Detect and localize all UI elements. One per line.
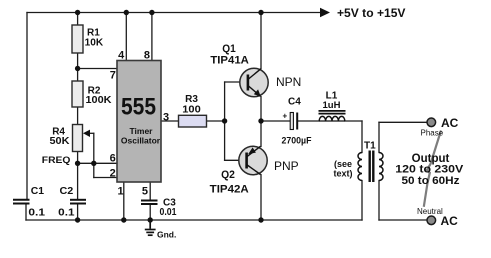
svg-text:text): text) xyxy=(333,169,352,179)
svg-text:TIP42A: TIP42A xyxy=(210,184,249,196)
wire C3 to ground rail xyxy=(149,205,151,220)
svg-text:Oscillator: Oscillator xyxy=(121,136,161,146)
svg-text:AC: AC xyxy=(441,214,459,228)
transformer T1 xyxy=(358,151,383,183)
svg-text:+: + xyxy=(283,112,288,121)
svg-text:Q2: Q2 xyxy=(221,169,235,181)
wire wiper vertical xyxy=(93,133,95,177)
terminal AC Neutral xyxy=(427,216,436,225)
svg-text:5: 5 xyxy=(142,186,148,198)
wire C1 bottom to ground rail xyxy=(25,205,27,221)
svg-text:50K: 50K xyxy=(50,136,71,147)
svg-text:TIP41A: TIP41A xyxy=(210,55,249,67)
svg-text:0.1: 0.1 xyxy=(28,207,45,218)
svg-text:50 to 60Hz: 50 to 60Hz xyxy=(402,175,461,187)
wire left vertical (V+ to C1) xyxy=(26,13,28,199)
svg-text:Timer: Timer xyxy=(130,126,154,136)
svg-text:555: 555 xyxy=(121,94,156,121)
potentiometer R4 xyxy=(73,125,83,152)
svg-text:FREQ: FREQ xyxy=(42,155,71,166)
ground symbol xyxy=(145,220,156,235)
wire secondary top to Phase terminal xyxy=(379,121,427,123)
wire R2 bottom to R4 top xyxy=(77,107,79,125)
IC 555 timer U1 xyxy=(117,61,161,183)
svg-text:Neutral: Neutral xyxy=(417,207,443,216)
svg-text:1uH: 1uH xyxy=(323,100,341,110)
wire Q1 collector to rail xyxy=(260,13,262,69)
wire Q1 base lead xyxy=(225,81,247,83)
svg-text:1: 1 xyxy=(117,186,123,198)
svg-text:100: 100 xyxy=(182,104,201,115)
svg-text:6: 6 xyxy=(110,153,116,165)
svg-text:C2: C2 xyxy=(60,186,74,197)
resistor R1 xyxy=(72,25,83,53)
svg-text:Q1: Q1 xyxy=(222,43,236,55)
wire pin 8 to rail xyxy=(151,13,153,61)
svg-text:100K: 100K xyxy=(86,95,113,106)
wire emitter node to C4 xyxy=(261,120,290,122)
wire T1 secondary top lead xyxy=(378,122,380,152)
node pin8 rail xyxy=(149,10,154,15)
svg-text:Phase: Phase xyxy=(421,129,444,138)
svg-text:AC: AC xyxy=(441,116,459,130)
wire R1 bottom lead to node xyxy=(77,53,79,81)
wire R1 top lead xyxy=(77,13,79,26)
svg-text:8: 8 xyxy=(144,50,150,62)
wire C2 bottom to ground rail xyxy=(77,205,79,221)
svg-text:2700µF: 2700µF xyxy=(282,136,312,147)
svg-text:10K: 10K xyxy=(85,38,104,49)
wire R4 bottom to FREQ node xyxy=(77,152,79,199)
wire Q2 collector to ground rail xyxy=(260,175,262,220)
resistor R2 xyxy=(72,81,83,107)
svg-text:R3: R3 xyxy=(185,94,198,105)
lightning output marker xyxy=(424,131,441,207)
node pin4 rail xyxy=(124,10,129,15)
svg-text:T1: T1 xyxy=(364,141,376,152)
svg-text:0.01: 0.01 xyxy=(160,207,177,218)
wire C4 to L1 xyxy=(299,120,320,122)
svg-text:C4: C4 xyxy=(288,97,301,108)
wire R3 to base node xyxy=(207,120,225,122)
wire FREQ node to wiper node xyxy=(78,162,94,164)
wire Q1 emitter to Q2 emitter xyxy=(260,97,262,147)
wire L1 to T1 corner xyxy=(345,120,362,122)
wire T1 primary bottom lead xyxy=(361,181,363,221)
capacitor C2 xyxy=(70,200,86,204)
wire wiper node to pin 6 xyxy=(94,162,117,164)
wire bottom ground rail xyxy=(26,219,362,221)
node pin1 ground xyxy=(121,217,126,222)
node R3 base bus xyxy=(222,118,227,123)
node R1 top xyxy=(75,10,80,15)
wire node to pin 7 xyxy=(78,68,117,70)
svg-text:(see: (see xyxy=(334,159,352,169)
wire Q2 base lead xyxy=(225,159,246,161)
svg-text:C1: C1 xyxy=(31,186,45,197)
svg-text:120 to 230V: 120 to 230V xyxy=(395,164,464,176)
wire R4 wiper shaft xyxy=(89,132,94,134)
node Q1 collector rail xyxy=(258,10,263,15)
wire secondary bottom to Neutral terminal xyxy=(379,219,427,221)
supply arrow xyxy=(320,8,330,17)
svg-text:7: 7 xyxy=(110,69,116,81)
svg-text:3: 3 xyxy=(163,112,169,124)
wire pin 1 to ground rail xyxy=(123,182,125,220)
wire pin 3 to R3 xyxy=(161,120,179,122)
node C2 ground xyxy=(75,217,80,222)
inductor L1 xyxy=(319,111,346,121)
wire pin 5 to C3 xyxy=(149,182,151,200)
svg-text:NPN: NPN xyxy=(276,75,301,89)
wire T1 primary top lead xyxy=(361,121,363,153)
svg-text:2: 2 xyxy=(110,168,116,180)
capacitor C4 xyxy=(290,113,298,130)
wire T1 secondary bottom lead xyxy=(378,181,380,221)
node FREQ xyxy=(75,161,80,166)
svg-text:Gnd.: Gnd. xyxy=(157,230,176,240)
resistor R3 xyxy=(179,115,207,127)
svg-text:+5V to +15V: +5V to +15V xyxy=(337,6,406,20)
capacitor C1 xyxy=(13,200,30,204)
wire to pin 2 xyxy=(94,177,117,179)
wire top supply rail xyxy=(27,12,321,14)
node R1/R2/pin7 xyxy=(75,66,80,71)
svg-text:4: 4 xyxy=(118,50,125,62)
svg-text:0.1: 0.1 xyxy=(58,207,75,218)
node wiper/pin6 xyxy=(91,161,96,166)
wire pin 4 to rail xyxy=(125,13,127,61)
node Q2 collector ground xyxy=(258,217,263,222)
terminal AC Phase xyxy=(427,118,436,127)
node emitters/C4 xyxy=(258,118,263,123)
svg-text:PNP: PNP xyxy=(274,159,299,173)
node C3 ground xyxy=(148,217,153,222)
capacitor C3 xyxy=(141,201,158,205)
wire base bus vertical xyxy=(224,82,226,160)
transistor Q1 TIP41A xyxy=(240,68,268,97)
transistor Q2 TIP42A xyxy=(239,146,267,174)
